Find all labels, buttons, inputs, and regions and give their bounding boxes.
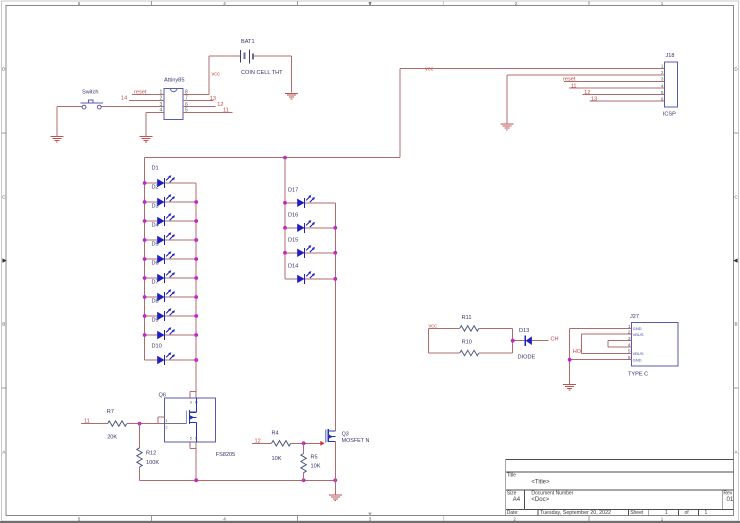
wire: net 11 to J18 pin4 [569, 87, 664, 89]
svg-text:4: 4 [223, 1, 226, 6]
svg-text:<Doc>: <Doc> [531, 497, 549, 503]
node: junction Q6 source/bus [194, 478, 198, 482]
node: junction Q3 source/bus [333, 478, 337, 482]
ground under J18 pin2 [500, 124, 513, 130]
Q3 arrow [329, 434, 333, 438]
ground under switch [50, 137, 63, 143]
wire: net 11 to R7 [81, 423, 108, 425]
J27 pin numbers [628, 324, 631, 361]
connector J18 [663, 53, 678, 118]
wire: D7 row [145, 296, 197, 298]
wire: U1 pin7 net 13 [183, 99, 213, 101]
wire: junction down to R12 [139, 424, 141, 448]
wire: Q6 top pin bracket [190, 391, 196, 398]
Q6 internal mosfet [186, 398, 196, 442]
svg-text:Attiny85: Attiny85 [164, 78, 185, 84]
wire: reset to U1 pin1 [132, 93, 164, 95]
svg-text:A4: A4 [513, 497, 521, 503]
svg-text:D15: D15 [288, 238, 298, 244]
svg-text:1: 1 [705, 510, 708, 516]
wire: net 12 to R4 [252, 442, 272, 444]
node: junction R7/R12 [138, 422, 142, 426]
LED D3 [157, 213, 175, 226]
svg-text:4: 4 [661, 83, 664, 88]
title block text [507, 473, 734, 516]
LED D17 [297, 195, 315, 208]
svg-text:10K: 10K [311, 463, 321, 469]
svg-text:J27: J27 [630, 314, 639, 320]
wire: switch to U1 pin3 [57, 107, 164, 136]
wire: bottom bus [140, 479, 336, 481]
svg-text:2: 2 [165, 425, 167, 429]
svg-text:DIODE: DIODE [518, 354, 536, 360]
svg-text:Sheet: Sheet [630, 510, 644, 516]
J18 pin numbers [661, 64, 664, 102]
wire: D17 column left bus [284, 158, 286, 279]
svg-text:D10: D10 [152, 343, 162, 349]
diode D13 [525, 336, 532, 346]
wire: R7 to Q6 gate [127, 423, 165, 425]
svg-text:Date:: Date: [507, 510, 519, 516]
svg-text:R11: R11 [462, 315, 472, 321]
svg-text:12: 12 [584, 90, 590, 96]
LED D16 [297, 220, 315, 233]
junction dots D1 column right bus [194, 200, 198, 362]
node: junction J27 gnd [568, 358, 572, 362]
wire: U1 pin6 net 12 [183, 106, 216, 108]
wire: J27 pin1 gnd [570, 328, 632, 330]
wire: D1 column right bus [195, 183, 197, 398]
svg-text:D14: D14 [288, 264, 298, 270]
LED D10 [157, 352, 175, 365]
wire: Q6 left gate bracket [158, 417, 165, 424]
wire: J27 gnd riser [569, 329, 571, 384]
svg-text:D16: D16 [288, 213, 298, 219]
wire: J27 pin3-pin4 U link [607, 341, 609, 347]
IC U1 Attiny85 [164, 78, 185, 120]
LED D5 [157, 251, 175, 264]
svg-text:100K: 100K [146, 460, 159, 466]
wire: D14 row [285, 278, 335, 280]
LED D15 [297, 245, 315, 258]
resistor R10 [460, 350, 479, 355]
node: junction R5/bus [302, 478, 306, 482]
wire: D6 row [145, 277, 197, 279]
wire: reset to J18 pin3 [564, 81, 664, 83]
resistor R11 [460, 326, 479, 331]
wire: J27 pin4 [608, 346, 632, 348]
svg-text:1: 1 [661, 64, 664, 69]
svg-text:D1: D1 [152, 166, 159, 172]
wire: U1 pin5 net 11 [183, 111, 232, 113]
svg-text:R4: R4 [272, 430, 279, 436]
LED D6 [157, 270, 175, 283]
LED D2 [157, 194, 175, 207]
svg-text:<Title>: <Title> [531, 480, 550, 486]
wire: J27 pin3 [608, 340, 632, 342]
svg-text:S: S [195, 437, 198, 441]
svg-text:Size: Size [507, 490, 517, 496]
wire: Q6 bottom pin to bus [190, 442, 196, 481]
svg-text:13: 13 [591, 96, 597, 102]
svg-text:TYPE C: TYPE C [628, 372, 648, 378]
resistor R12 [137, 448, 142, 467]
svg-text:2: 2 [661, 70, 664, 75]
J27 pin names [633, 326, 644, 362]
wire: J27 pin2-pin5 U link [581, 334, 583, 353]
svg-text:14: 14 [121, 96, 127, 102]
wire: D16 row [285, 227, 335, 229]
wire: J18 pin2 to ground [507, 75, 665, 124]
connector J27 TYPE C [628, 314, 678, 378]
wire: D1 column left bus [144, 158, 146, 360]
svg-text:CH: CH [551, 336, 559, 342]
svg-text:11: 11 [571, 83, 577, 89]
wire: D13 to CH [532, 340, 549, 342]
LED D4 [157, 232, 175, 245]
U1 pin numbers [160, 90, 188, 114]
svg-text:vcc: vcc [425, 66, 434, 72]
svg-text:Document Number: Document Number [531, 490, 573, 496]
transistor Q6 FS8205 [159, 392, 236, 458]
Q6 arrow [190, 415, 194, 419]
svg-text:13: 13 [210, 96, 216, 102]
node: junction R11/R10/D13 [511, 339, 515, 343]
svg-text:D13: D13 [519, 328, 529, 334]
svg-text:1: 1 [661, 1, 664, 6]
svg-text:3: 3 [190, 401, 192, 405]
svg-text:Title: Title [507, 473, 516, 479]
svg-text:3: 3 [661, 77, 664, 82]
wire: J27 pin5 vbus [582, 352, 632, 354]
wire: U1 pin4 to ground [146, 112, 164, 136]
wire: R5 to bottom bus [303, 473, 305, 481]
svg-text:reset: reset [563, 77, 576, 83]
svg-text:01: 01 [727, 497, 734, 503]
wire: net 14 to U1 pin2 [129, 99, 164, 101]
svg-text:4: 4 [223, 516, 226, 521]
wire: J27 pin6 gnd [570, 359, 632, 361]
svg-text:6: 6 [661, 96, 664, 101]
LED D9 [157, 327, 175, 340]
wire: J27 pin2 vbus [582, 333, 632, 335]
wire: BAT1 + to ground [253, 56, 292, 92]
svg-text:HO: HO [573, 349, 582, 355]
junction dots D1 column left bus [143, 181, 147, 337]
wire: D4 row [145, 239, 197, 241]
svg-text:vcc: vcc [212, 72, 221, 78]
svg-text:VBUS: VBUS [633, 351, 644, 356]
resistor R5 [301, 454, 306, 473]
svg-text:1: 1 [661, 516, 664, 521]
wire: net 12 to J18 pin5 [583, 94, 665, 96]
svg-text:5: 5 [661, 90, 664, 95]
node: junction R4/R5 [302, 441, 306, 445]
ground under BAT1 [285, 93, 298, 99]
svg-text:BAT1: BAT1 [241, 39, 255, 45]
wire: vcc top bus to LED columns [145, 157, 400, 159]
ground under U1 pin4 [139, 137, 152, 143]
title block [506, 460, 734, 516]
wire: U1 pin8 to vcc riser [183, 56, 209, 94]
svg-text:B: B [2, 322, 5, 327]
svg-text:10K: 10K [272, 456, 282, 462]
Q6 pin texts [165, 401, 197, 441]
svg-text:Tuesday, September 20, 2022: Tuesday, September 20, 2022 [540, 510, 611, 516]
svg-text:5: 5 [78, 1, 81, 6]
svg-text:COIN CELL THT: COIN CELL THT [241, 70, 283, 76]
wire: D10 row [145, 359, 197, 361]
svg-text:Q3: Q3 [342, 431, 349, 437]
node: junction vcc/D17 column [283, 156, 287, 160]
svg-text:Rev: Rev [723, 490, 732, 496]
svg-text:GND: GND [633, 326, 642, 331]
wire: R12 to bottom bus [139, 467, 141, 480]
svg-text:VBUS: VBUS [633, 332, 644, 337]
Q3 gate pin arrow [320, 441, 324, 446]
wire: D2 row [145, 201, 197, 203]
svg-text:4: 4 [160, 108, 163, 114]
Q6 gate lead [165, 422, 186, 424]
junction dots D17 column [283, 201, 337, 281]
wire: D17 row [285, 202, 335, 204]
svg-text:D: D [195, 401, 198, 405]
svg-text:2: 2 [515, 1, 518, 6]
svg-text:R5: R5 [311, 454, 318, 460]
svg-text:reset: reset [134, 89, 147, 95]
svg-text:Switch: Switch [82, 89, 98, 95]
wire: D1 row [145, 182, 197, 184]
svg-text:R12: R12 [146, 450, 156, 456]
svg-text:2: 2 [513, 516, 516, 521]
svg-text:R7: R7 [107, 409, 114, 415]
resistor R4 [272, 441, 291, 446]
svg-text:R10: R10 [462, 339, 472, 345]
svg-text:3: 3 [369, 1, 372, 6]
battery BAT1 [209, 39, 283, 76]
ground under J27 [563, 385, 576, 391]
svg-text:J18: J18 [666, 53, 675, 59]
svg-text:1: 1 [165, 419, 167, 423]
resistor R7 [108, 421, 127, 426]
wire: D17 column right bus to Q3 drain [334, 203, 336, 431]
svg-text:3: 3 [369, 516, 372, 521]
LED D7 [157, 289, 175, 302]
wire: D3 row [145, 220, 197, 222]
wire: R4 to Q3 gate [291, 442, 321, 444]
LED D14 [297, 271, 315, 284]
wire: vcc to R11/R10 left [428, 328, 459, 353]
svg-text:MOSFET N: MOSFET N [342, 438, 370, 444]
LED D1 [157, 175, 175, 188]
wire: net 13 to J18 pin6 [589, 100, 664, 102]
svg-text:5: 5 [190, 437, 192, 441]
wire: D5 row [145, 258, 197, 260]
wire: R5 top [303, 443, 305, 453]
ground bottom bus [329, 495, 342, 501]
svg-text:5: 5 [78, 516, 81, 521]
svg-text:2: 2 [160, 96, 163, 102]
svg-text:1: 1 [665, 510, 668, 516]
wire: R11/R10 right join [479, 328, 525, 353]
wire: D8 row [145, 315, 197, 317]
transistor Q3 MOSFET N [326, 429, 336, 442]
wire: bus to ground [334, 480, 336, 494]
svg-text:of: of [685, 510, 690, 516]
svg-text:Q6: Q6 [159, 392, 166, 398]
svg-text:GND: GND [633, 357, 642, 362]
svg-text:20K: 20K [107, 435, 117, 441]
svg-text:B: B [734, 322, 737, 327]
switch SW1 [81, 100, 103, 109]
svg-text:D17: D17 [288, 188, 298, 194]
wire: D9 row [145, 334, 197, 336]
svg-text:FS8205: FS8205 [216, 452, 236, 458]
svg-text:11: 11 [223, 108, 229, 114]
LED D8 [157, 308, 175, 321]
wire: Q3 source down [334, 442, 336, 481]
wire: D15 row [285, 252, 335, 254]
svg-text:ICSP: ICSP [663, 112, 676, 118]
wire: vcc long net to J18 pin1 [400, 68, 664, 157]
